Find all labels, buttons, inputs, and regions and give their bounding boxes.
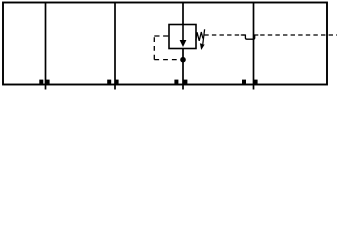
junction node J1 (180, 57, 186, 63)
valve V1 flow arrowhead (180, 40, 187, 47)
spring adjustment arrowhead (200, 43, 205, 50)
port pad P1 right (46, 80, 50, 84)
port pad P1 left (39, 80, 43, 84)
port pad P3 right (183, 80, 187, 84)
spring adjustment arrow (203, 29, 205, 44)
pilot line: left dashed riser (153, 36, 155, 60)
wire: station line 4 (253, 2, 255, 90)
valve V1 flow arrow shaft (182, 25, 184, 42)
valve V1 body (169, 25, 196, 49)
vent line hop over station line 4 (241, 35, 258, 39)
pilot line: top dashed run to valve body (154, 35, 169, 37)
wire: station line 3 lower segment (182, 49, 184, 90)
wire: station line 2 (114, 2, 116, 90)
port pad P2 left (107, 80, 111, 84)
spring S1 (196, 32, 203, 41)
port pad P4 left (242, 80, 246, 84)
port pad P4 right (254, 80, 258, 84)
port pad P2 right (115, 80, 119, 84)
port pad P3 left (174, 80, 178, 84)
wire: station line 1 (45, 2, 47, 90)
vent dashed line (right of hop, exits enclosure) (260, 34, 337, 36)
wire: station line 3 (through valve) (182, 2, 184, 25)
pilot line: bottom dashed run to junction (154, 59, 180, 61)
vent dashed line (left of hop) (204, 34, 244, 36)
manifold enclosure (3, 3, 327, 85)
